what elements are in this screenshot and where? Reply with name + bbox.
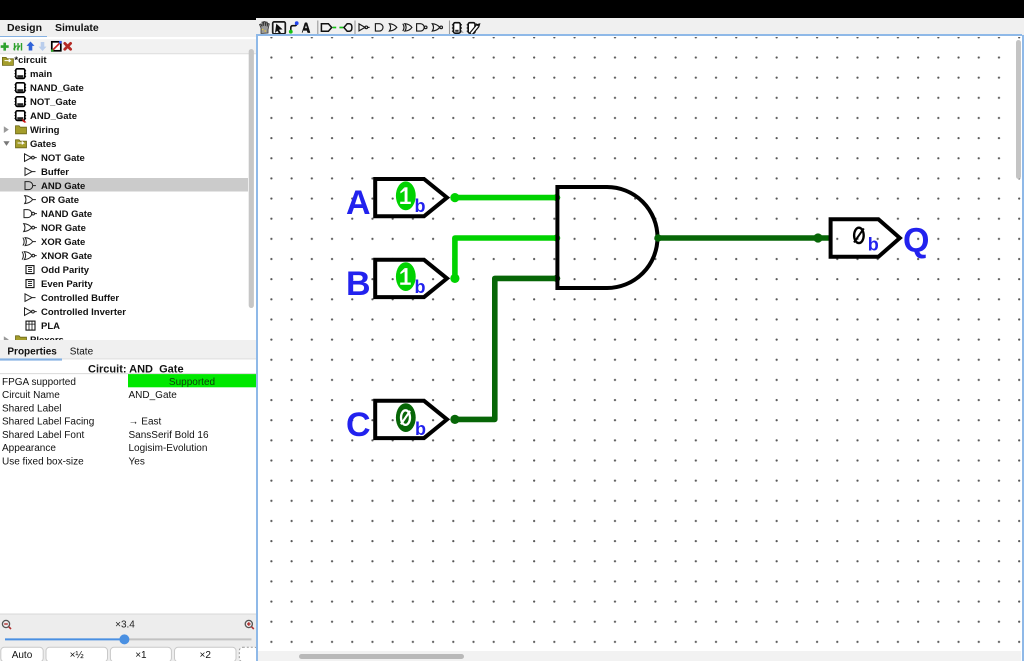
- node: wire B endpoint dot at pin B: [450, 274, 459, 283]
- svg-text:Circuit Name: Circuit Name: [2, 390, 60, 401]
- node: wire A endpoint dot at pin A: [450, 193, 459, 202]
- svg-text:Auto: Auto: [12, 650, 33, 661]
- tree scrollbar thumb: [249, 49, 254, 308]
- svg-text:Buffer: Buffer: [41, 167, 69, 178]
- svg-text:×1: ×1: [135, 650, 147, 661]
- svg-text:Gates: Gates: [30, 139, 56, 150]
- canvas v-scrollbar thumb: [1016, 40, 1021, 179]
- svg-text:NOT_Gate: NOT_Gate: [30, 97, 76, 108]
- svg-text:State: State: [70, 347, 94, 358]
- pin B value digit 1: [400, 268, 411, 285]
- properties tab bar: [0, 340, 256, 358]
- node: wire C endpoint dot at pin C: [450, 415, 459, 424]
- svg-text:×3.4: ×3.4: [115, 620, 135, 631]
- svg-text:OR Gate: OR Gate: [41, 195, 79, 206]
- svg-text:SansSerif Bold 16: SansSerif Bold 16: [129, 430, 209, 441]
- selected row highlight: [0, 178, 248, 192]
- svg-text:Q: Q: [903, 222, 929, 260]
- wire net C: pin C right, up, right to AND gate input 3: [455, 278, 558, 419]
- svg-text:Even Parity: Even Parity: [41, 279, 93, 290]
- svg-text:Use fixed box-size: Use fixed box-size: [2, 456, 84, 467]
- canvas h-scrollbar thumb: [299, 654, 464, 659]
- svg-text:AND_Gate: AND_Gate: [30, 111, 77, 122]
- wire net A: pin A to AND gate input 1: [455, 195, 558, 201]
- input pin B body: [375, 260, 447, 297]
- canvas right border: [1022, 35, 1024, 661]
- svg-text:PLA: PLA: [41, 321, 60, 332]
- pin C value digit 0: [401, 410, 410, 425]
- pin B value oval (1): [396, 262, 416, 291]
- svg-text:b: b: [415, 196, 426, 216]
- canvas h-scrollbar track: [258, 651, 1021, 661]
- svg-text:→ East: → East: [129, 417, 162, 428]
- pin Q value digit 0: [854, 228, 864, 243]
- svg-text:Yes: Yes: [129, 456, 145, 467]
- input pin C body: [375, 401, 447, 438]
- project toolbar background: [0, 39, 256, 53]
- wire net B: pin B up and right to AND gate input 2: [455, 238, 558, 278]
- svg-text:Shared Label Facing: Shared Label Facing: [2, 417, 94, 428]
- svg-text:Shared Label Font: Shared Label Font: [2, 430, 85, 441]
- svg-text:NOR Gate: NOR Gate: [41, 223, 86, 234]
- node: AND output dot: [654, 234, 661, 241]
- zoom bar: [0, 614, 256, 661]
- canvas left border: [256, 35, 258, 661]
- canvas top border: [256, 34, 1022, 36]
- output pin Q body: [831, 219, 900, 257]
- svg-text:NAND Gate: NAND Gate: [41, 209, 92, 220]
- pin A value oval (1): [396, 181, 416, 210]
- svg-text:C: C: [346, 406, 371, 444]
- svg-text:NAND_Gate: NAND_Gate: [30, 83, 84, 94]
- svg-text:Appearance: Appearance: [2, 443, 56, 454]
- AND gate body: [557, 187, 657, 288]
- svg-text:Supported: Supported: [169, 377, 215, 388]
- svg-text:Odd Parity: Odd Parity: [41, 265, 90, 276]
- svg-text:XNOR Gate: XNOR Gate: [41, 251, 92, 262]
- svg-text:*circuit: *circuit: [14, 55, 47, 66]
- svg-text:main: main: [30, 69, 52, 80]
- node: wire Q endpoint dot at pin Q: [813, 233, 822, 242]
- svg-text:Logisim-Evolution: Logisim-Evolution: [129, 443, 208, 454]
- pin C value oval (0): [396, 403, 416, 432]
- svg-text:XOR Gate: XOR Gate: [41, 237, 85, 248]
- svg-text:Properties: Properties: [7, 347, 57, 358]
- svg-text:B: B: [346, 265, 371, 303]
- svg-text:AND_Gate: AND_Gate: [129, 390, 178, 401]
- svg-text:A: A: [346, 184, 371, 222]
- wire net Q: AND gate output to pin Q: [658, 235, 830, 241]
- svg-text:NOT Gate: NOT Gate: [41, 153, 85, 164]
- node: wire A end dot at AND input 1: [553, 194, 560, 201]
- pin A value digit 1: [400, 187, 411, 204]
- svg-text:×2: ×2: [199, 650, 211, 661]
- svg-text:Wiring: Wiring: [30, 125, 60, 136]
- svg-text:AND Gate: AND Gate: [41, 181, 85, 192]
- node: wire B end dot at AND input 2: [553, 234, 560, 241]
- node: wire C end dot at AND input 3: [553, 275, 560, 282]
- input pin A body: [375, 179, 447, 216]
- properties table: [128, 374, 256, 387]
- svg-text:Shared Label: Shared Label: [2, 403, 62, 414]
- svg-text:FPGA supported: FPGA supported: [2, 377, 76, 388]
- svg-text:b: b: [868, 235, 879, 255]
- svg-text:b: b: [415, 277, 426, 297]
- svg-text:Controlled Inverter: Controlled Inverter: [41, 307, 126, 318]
- svg-text:×½: ×½: [70, 650, 85, 661]
- svg-text:Controlled Buffer: Controlled Buffer: [41, 293, 119, 304]
- svg-text:b: b: [415, 419, 426, 439]
